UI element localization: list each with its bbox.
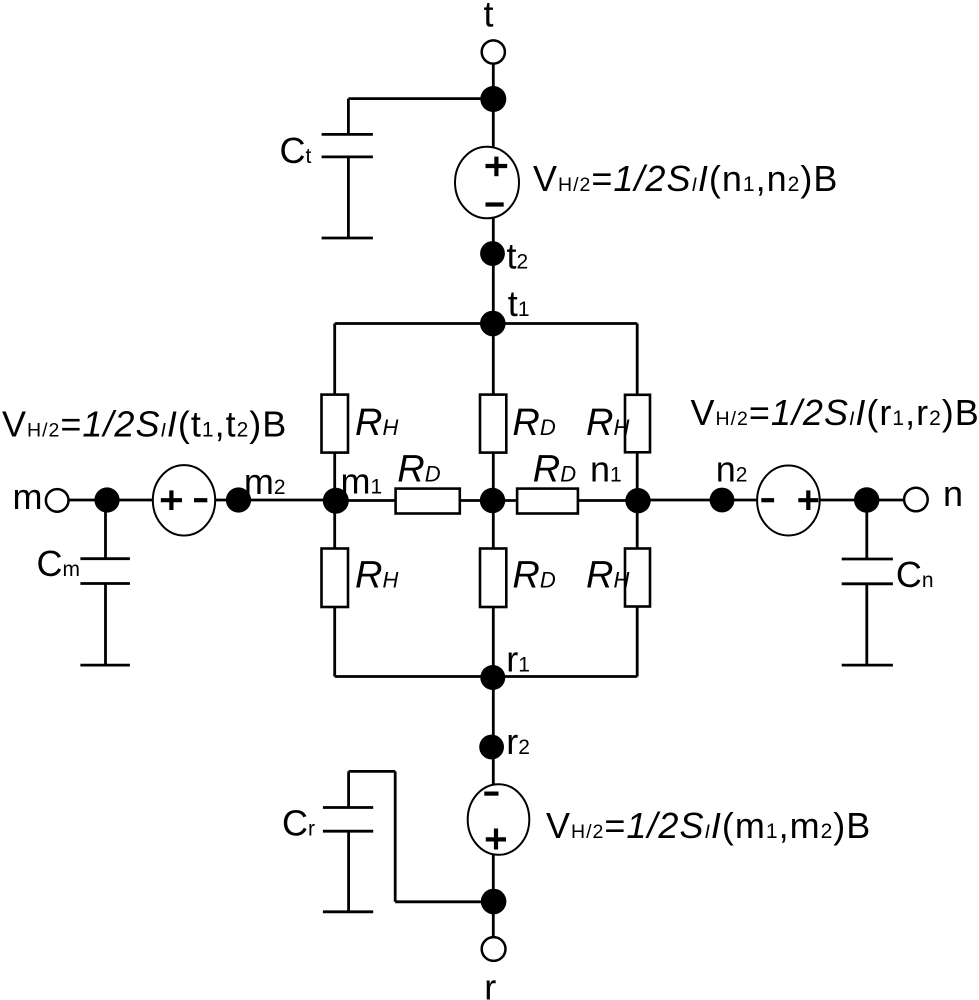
capacitor Cm: [80, 559, 129, 665]
resistor RH bottom-left: [322, 549, 349, 608]
svg-text:t: t: [484, 0, 494, 35]
plus sign of Vr: [486, 829, 506, 850]
minus sign of Vt: [486, 202, 504, 206]
voltage source Vt ellipse: [455, 147, 519, 219]
resistor RH bottom-right: [625, 549, 650, 607]
resistor RD mid-left: [396, 489, 460, 514]
node before n terminal: [854, 487, 879, 512]
wire left column: [333, 324, 336, 677]
wire source Vt to node t2: [492, 215, 495, 254]
wire t terminal to top node: [492, 63, 495, 99]
wire left row m to m1: [57, 499, 336, 502]
wire Cr to bottom node: [395, 900, 493, 903]
terminal m open circle: [46, 489, 69, 512]
node n2: [710, 488, 735, 513]
node t1: [480, 311, 506, 337]
wire Ct horizontal: [348, 97, 493, 100]
capacitor Ct: [322, 134, 373, 238]
wire Ct lead down: [347, 99, 350, 135]
wire right row n1 to n: [637, 499, 916, 502]
node below t terminal: [480, 86, 506, 112]
resistor RD top-center: [480, 395, 506, 453]
plus sign of Vm: [161, 490, 182, 510]
wire top node to source Vt: [492, 99, 495, 150]
node r2: [479, 735, 504, 760]
capacitor Cr: [323, 808, 373, 912]
node center: [480, 488, 505, 513]
minus sign of Vm: [194, 498, 207, 502]
wire Cr lead down: [347, 771, 350, 808]
node m after terminal: [94, 487, 119, 512]
terminal n open circle: [904, 488, 928, 512]
wire right column: [636, 324, 639, 677]
svg-text:m: m: [13, 476, 43, 517]
wire r1 to r2: [492, 678, 495, 748]
svg-text:n: n: [943, 473, 963, 514]
capacitor Cn: [842, 559, 893, 665]
voltage source Vn ellipse: [757, 466, 820, 536]
terminal t open circle: [482, 40, 505, 63]
resistor RH top-right: [625, 395, 650, 453]
wire bridge bottom rail: [335, 675, 638, 678]
plus sign of Vt: [486, 157, 508, 177]
node above r terminal: [481, 889, 507, 915]
node t2: [480, 241, 505, 266]
wire Cn lead: [865, 500, 868, 560]
resistor RH top-left: [322, 395, 349, 453]
voltage source Vr ellipse: [468, 784, 530, 855]
wire Cm lead: [104, 500, 107, 560]
wire source Vr to bottom node: [492, 851, 495, 902]
minus sign of Vr: [484, 791, 498, 795]
wire m1 to center node to n1: [336, 499, 638, 502]
voltage source Vm ellipse: [153, 465, 215, 535]
wire center column: [492, 324, 495, 678]
wire bridge top rail: [335, 322, 638, 325]
node m1: [323, 488, 349, 514]
wire Cr right vertical: [394, 771, 397, 901]
plus sign of Vn: [798, 490, 818, 510]
wire node t2 to node t1: [492, 254, 495, 324]
svg-text:r: r: [484, 967, 496, 1000]
terminal r open circle: [482, 937, 506, 961]
wire r2 to source Vr: [492, 747, 495, 788]
node n1: [625, 488, 650, 513]
minus sign of Vn: [761, 498, 774, 502]
node m2: [226, 487, 251, 512]
wire bottom node to r terminal: [492, 902, 495, 938]
wire Cr top horizontal: [349, 770, 396, 773]
resistor RD mid-right: [517, 489, 578, 514]
node r1: [480, 665, 505, 690]
resistor RD bottom-center: [480, 549, 506, 608]
